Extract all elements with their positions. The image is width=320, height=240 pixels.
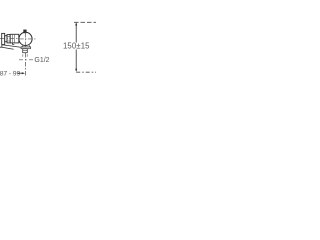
outlet neck trapezoid [22,45,31,47]
handle knob (circle) [19,32,32,45]
arrowhead pointing up [75,22,77,25]
top dashed reference line (shower head level) [74,21,96,23]
vertical dimension line 150±15 upper segment [75,24,77,43]
union nut [7,35,10,43]
nipple thread line [23,50,28,52]
outlet horizontal centerline at G1/2 [19,59,33,61]
horizontal centerline of mixer body [0,38,19,40]
handle crosshair horizontal [19,38,36,40]
leader line for 87 - 99 [18,72,24,74]
union nut flats [7,36,10,41]
svg-text:87 - 99: 87 - 99 [0,71,20,78]
outlet flange [21,47,31,49]
connector neck [5,36,7,42]
temperature stop button on top [24,30,27,33]
valve body rib 1 [11,34,13,43]
wall escutcheon plate [2,33,5,44]
lower cover bottom slope [2,47,14,49]
outlet vertical centerline (lower) [25,53,27,77]
vertical centerline through handle [25,32,27,47]
vertical dimension line 150±15 lower segment [75,50,77,71]
escutcheon foot to wall [0,44,2,47]
arrowhead pointing right [22,72,25,74]
valve body lower lip step [13,43,15,45]
bottom dash-dot reference line (outlet level) [76,71,96,73]
valve body [10,34,19,43]
hidden hose lines below nipple [23,54,27,57]
valve body rib 2 [13,34,15,43]
svg-text:G1/2: G1/2 [34,57,49,64]
threaded nipple G1/2 [23,49,28,53]
svg-text:150±15: 150±15 [63,42,90,51]
lower cover top slope [2,45,21,48]
arrowhead pointing down [75,69,77,72]
